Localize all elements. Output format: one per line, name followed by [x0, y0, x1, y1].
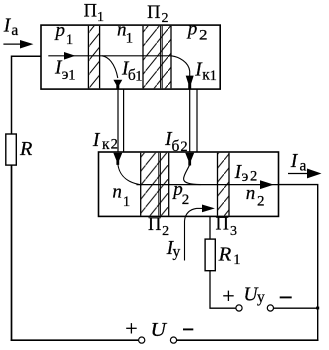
minus sign Uy — [280, 296, 292, 298]
label Iк1 — [194, 59, 217, 84]
wire: left rail down — [11, 165, 13, 341]
svg-text:2: 2 — [199, 28, 208, 44]
bottom wire right segment — [177, 339, 319, 341]
label n1 (bottom rect) — [112, 182, 130, 210]
svg-text:у: у — [173, 244, 181, 261]
wire: cathode out of bottom rect to right rail — [279, 185, 318, 341]
svg-text:1: 1 — [233, 252, 240, 268]
label n1 — [117, 19, 133, 46]
svg-text:П: П — [84, 2, 97, 22]
terminal circle Uy - — [267, 305, 273, 311]
label Iэ1 — [54, 58, 75, 84]
top transistor rectangle p1-n1-p2 — [41, 25, 220, 89]
arrow Iк2 — [113, 153, 122, 165]
terminal circle U + — [139, 337, 145, 343]
plus sign U — [126, 323, 137, 333]
svg-text:1: 1 — [210, 68, 217, 84]
svg-text:а: а — [300, 157, 307, 174]
resistor R — [6, 134, 16, 165]
emitter line in top rectangle — [48, 55, 171, 57]
svg-text:1: 1 — [97, 10, 104, 25]
svg-text:n: n — [246, 183, 256, 204]
label p2 (bottom rect) — [171, 179, 189, 208]
bottom wire left segment — [11, 339, 139, 341]
svg-text:1: 1 — [126, 30, 134, 46]
svg-text:П: П — [147, 3, 160, 23]
wire: anode lead from top rectangle to left rail — [12, 56, 42, 134]
resistor R1 — [205, 239, 215, 271]
minus sign U — [183, 328, 193, 330]
svg-text:3: 3 — [230, 224, 237, 239]
svg-text:2: 2 — [111, 137, 118, 153]
junction П1 hatched strip — [88, 26, 99, 88]
wire from bottom rect to R1 — [209, 216, 211, 239]
label П2 (bottom) — [148, 215, 169, 239]
wire curve Iб1 — [102, 56, 118, 78]
bottom transistor rectangle n1-p2-n2 — [99, 152, 279, 216]
plus sign Uy — [223, 291, 234, 301]
label R1 — [218, 244, 241, 267]
svg-text:а: а — [11, 22, 18, 39]
junction П3 hatched strip — [218, 153, 230, 216]
svg-text:R: R — [218, 244, 232, 265]
label Uy — [244, 284, 266, 306]
arrow Iа (right) — [288, 169, 322, 179]
arrow Iэ1 — [64, 52, 75, 60]
svg-text:p: p — [54, 20, 66, 41]
label Iа (right) — [290, 151, 307, 174]
svg-text:n: n — [112, 182, 122, 203]
label n2 (bottom rect) — [246, 183, 265, 209]
svg-text:П: П — [148, 215, 161, 235]
svg-text:p: p — [186, 19, 198, 40]
wire curve Iк2 to base line — [118, 164, 140, 185]
label П1 — [84, 2, 104, 25]
svg-text:1: 1 — [66, 32, 74, 48]
wire pair between transistors (right, collector1/base2) — [190, 89, 197, 153]
arrow Iк1 — [186, 76, 194, 89]
label П2 (top) — [147, 3, 168, 26]
label Iа (top left) — [3, 16, 19, 40]
svg-text:1: 1 — [68, 67, 75, 83]
svg-text:к: к — [102, 136, 110, 153]
svg-text:1: 1 — [135, 68, 142, 84]
arrow Iб1 — [113, 80, 122, 89]
svg-text:I: I — [290, 151, 299, 172]
gate lead Iу with arrow — [185, 205, 215, 261]
svg-text:2: 2 — [162, 11, 169, 26]
label Iб1 — [121, 58, 143, 84]
svg-text:R: R — [19, 139, 32, 160]
label Iу — [166, 238, 181, 261]
label Iэ2 — [234, 162, 258, 185]
svg-text:2: 2 — [182, 192, 190, 208]
junction П2 hatched strip (bottom rectangle) — [141, 153, 169, 216]
arrow Iэ2 — [260, 180, 274, 189]
base line in bottom rectangle — [137, 184, 279, 186]
wire Uy - to right rail — [274, 307, 318, 309]
label Iк2 — [92, 130, 118, 153]
wire R1 down to Uy terminal — [210, 271, 236, 309]
svg-text:2: 2 — [162, 224, 169, 239]
junction dot — [316, 307, 319, 310]
label p2 — [186, 19, 208, 44]
wire pair between transistors (left, base1/collector2) — [118, 89, 124, 153]
svg-text:2: 2 — [257, 193, 265, 209]
svg-text:1: 1 — [123, 194, 131, 210]
svg-text:I: I — [92, 130, 101, 151]
label П3 — [216, 215, 238, 239]
svg-text:П: П — [216, 215, 229, 235]
wire curve Iб2 hook to base line — [184, 165, 201, 185]
svg-text:у: у — [257, 289, 265, 306]
arrow Iб2 — [185, 153, 194, 166]
arrow Iа (top left) — [3, 40, 33, 49]
svg-text:U: U — [151, 320, 169, 341]
terminal circle U - — [170, 337, 176, 343]
terminal circle Uy + — [236, 305, 242, 311]
label Iб2 — [164, 129, 188, 155]
junction П2 hatched strip (top rectangle) — [143, 26, 171, 88]
wire curve Iк1 — [171, 56, 189, 76]
label p1 — [54, 20, 74, 48]
